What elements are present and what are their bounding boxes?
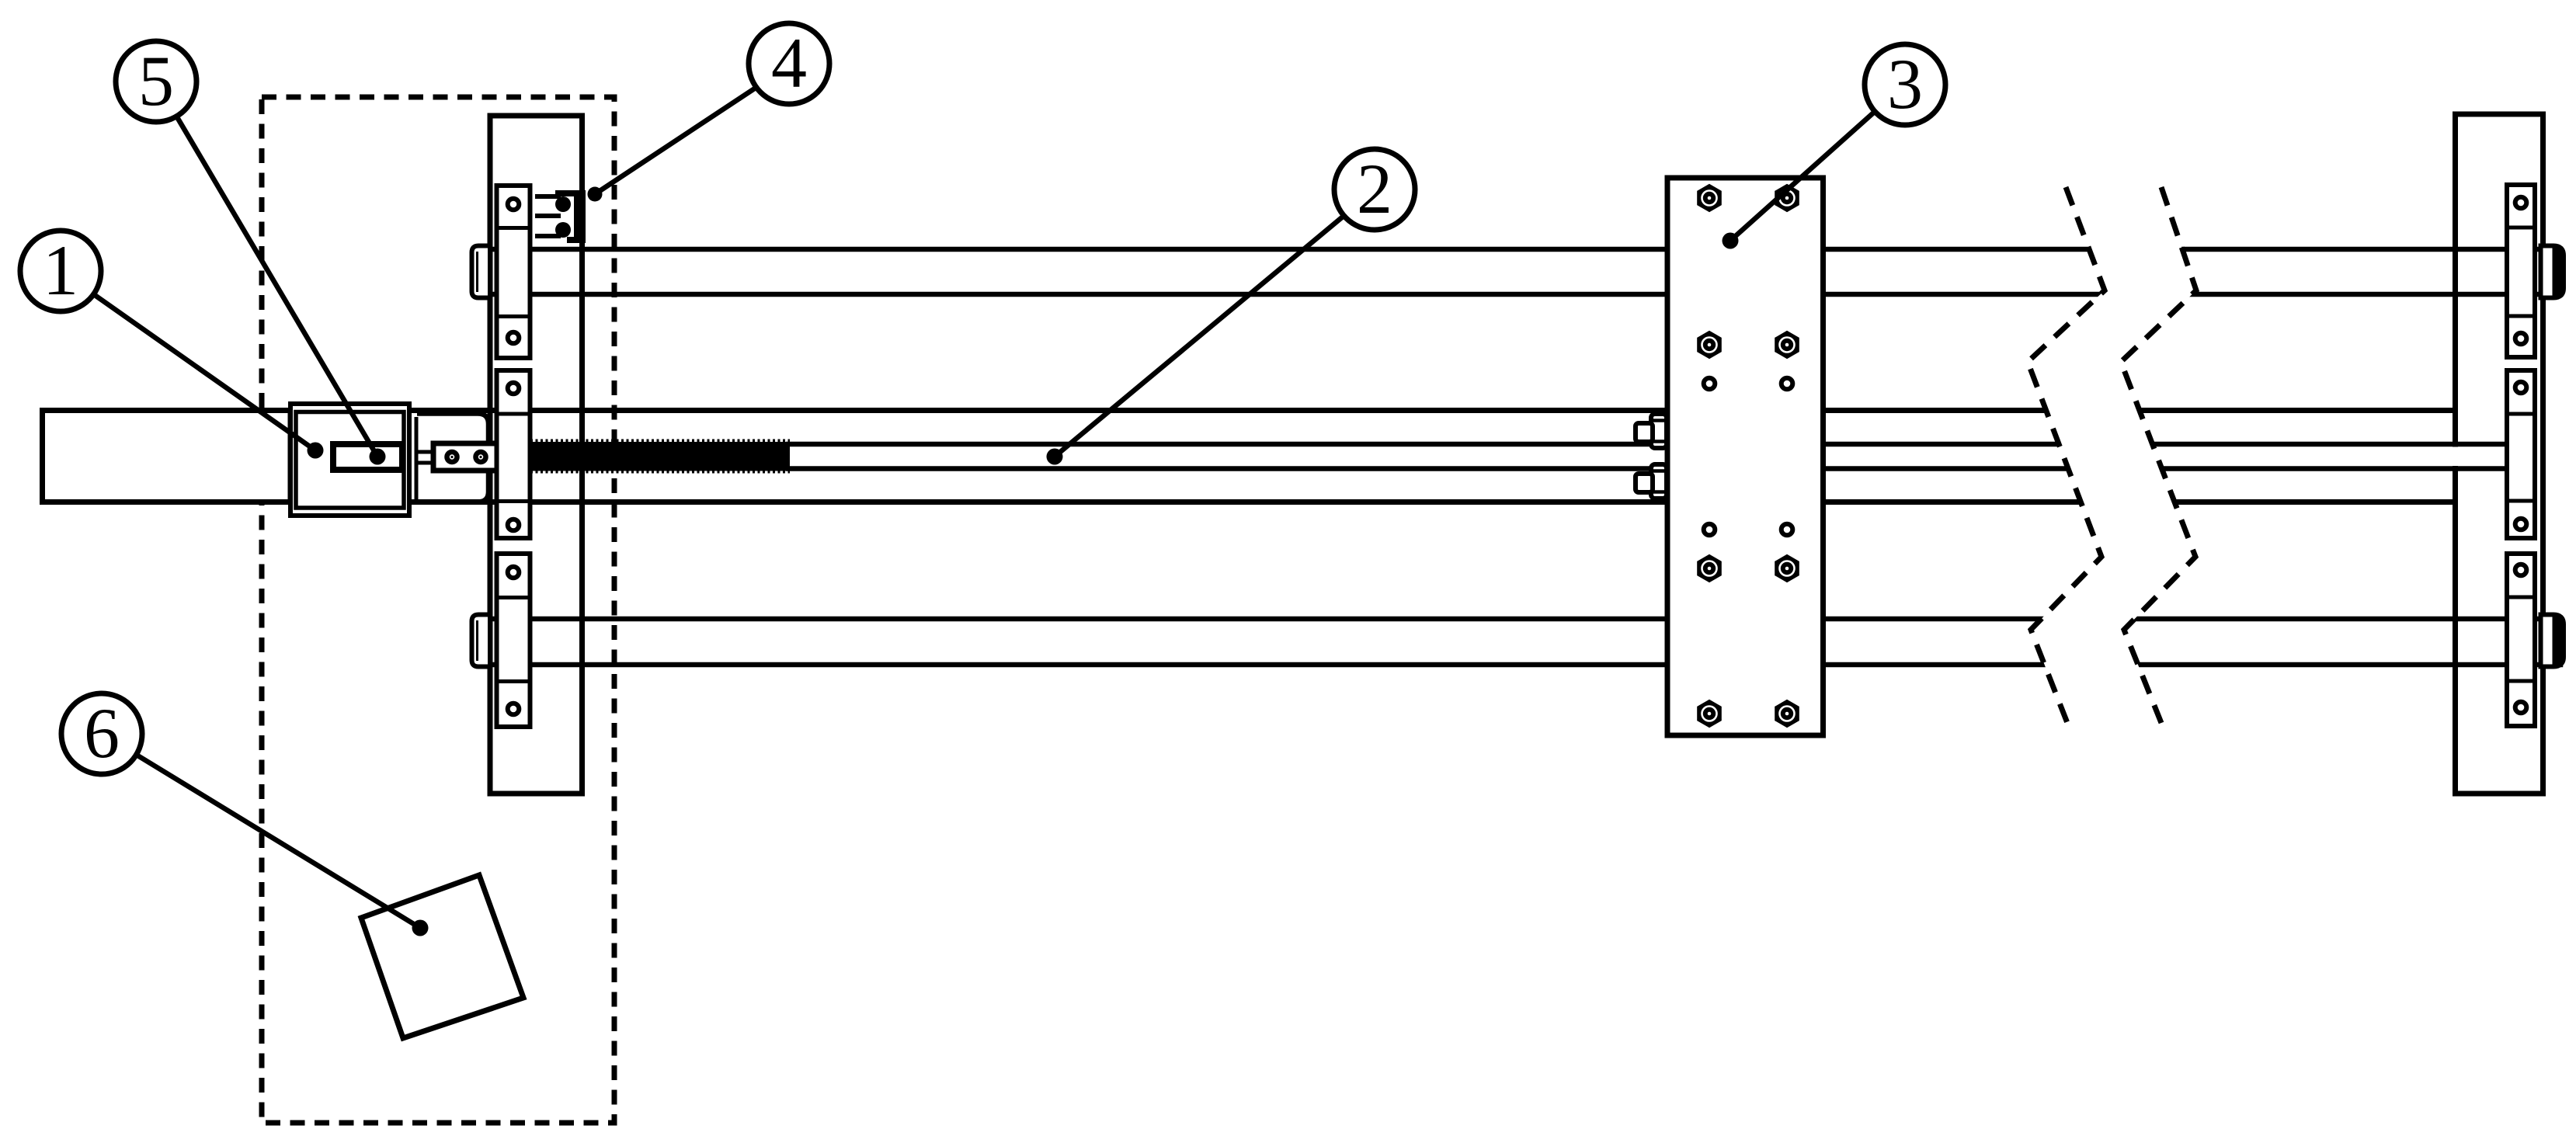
callout circle 2 xyxy=(1334,149,1415,230)
leader line 6 xyxy=(137,755,429,936)
hex bolt B3 xyxy=(1698,332,1721,358)
callout circle 4 xyxy=(749,23,829,104)
sensor housing inner box xyxy=(296,412,404,509)
right clamp strip bottom xyxy=(2507,554,2535,726)
leader line 3 xyxy=(1723,112,1876,249)
cylinder body (left block) xyxy=(43,411,291,502)
screw end bolt upper xyxy=(1636,414,1667,448)
plate pilot holes xyxy=(1704,378,1793,536)
carriage plate xyxy=(1667,178,1823,735)
callout circle 1 xyxy=(20,231,101,311)
lead screw threaded section xyxy=(530,441,790,472)
frame band top line xyxy=(287,408,2455,413)
hex bolt B4 xyxy=(1776,332,1799,358)
left clamp strip middle xyxy=(497,370,530,538)
leader line 5 xyxy=(176,116,385,465)
break line left xyxy=(2028,187,2105,723)
svg-text:4: 4 xyxy=(771,23,807,102)
coupling link xyxy=(433,443,499,471)
svg-text:6: 6 xyxy=(84,693,120,773)
left support column xyxy=(490,116,582,794)
hex bolt B8 xyxy=(1776,701,1799,727)
rail end cap left top xyxy=(472,246,491,298)
magnet slot xyxy=(333,444,402,470)
rail end cap right bottom xyxy=(2541,615,2564,667)
hex bolt B1 xyxy=(1698,186,1721,211)
rod clevis (rounded mount) xyxy=(417,414,488,502)
leader line 4 xyxy=(588,88,756,202)
right clamp strip top xyxy=(2507,185,2535,357)
rail end cap left bottom xyxy=(472,615,491,667)
hex bolt B6 xyxy=(1776,556,1799,582)
sensor board (tilted square, item 6) xyxy=(361,875,523,1038)
leader line 1 xyxy=(94,294,324,459)
svg-text:5: 5 xyxy=(138,41,174,120)
svg-text:3: 3 xyxy=(1887,44,1923,123)
coupling link hole A xyxy=(447,452,457,462)
leader line 2 xyxy=(1047,216,1344,464)
piston end plate xyxy=(415,417,419,502)
lead screw shaft lines xyxy=(786,444,2509,469)
hex bolt B5 xyxy=(1698,556,1721,582)
break gap white mask xyxy=(2028,187,2196,723)
hex bolt B7 xyxy=(1698,701,1721,727)
dashed enclosure box (detection zone) xyxy=(262,97,614,1123)
top guide rail xyxy=(475,249,2560,294)
screw end bolt lower xyxy=(1636,464,1667,499)
break line right xyxy=(2121,187,2196,723)
coupling link hole B xyxy=(476,452,486,462)
left clamp strip bottom xyxy=(497,554,530,727)
connector rod xyxy=(418,452,436,463)
svg-text:1: 1 xyxy=(43,231,78,310)
frame band bottom line xyxy=(287,499,2455,505)
bottom guide rail xyxy=(475,619,2560,665)
left clamp strip top xyxy=(497,186,530,358)
rail end cap right top xyxy=(2541,246,2564,298)
lead screw over right column xyxy=(2449,447,2508,467)
callout circle 6 xyxy=(61,693,142,774)
limit switch (item 4) xyxy=(535,190,586,243)
right clamp strip middle xyxy=(2507,370,2535,538)
callout circle 3 xyxy=(1865,44,1945,125)
hex bolt B2 xyxy=(1776,186,1799,211)
sensor housing outer box xyxy=(290,404,409,516)
right support column xyxy=(2456,114,2543,794)
callout circle 5 xyxy=(116,41,196,122)
svg-text:2: 2 xyxy=(1357,149,1392,228)
